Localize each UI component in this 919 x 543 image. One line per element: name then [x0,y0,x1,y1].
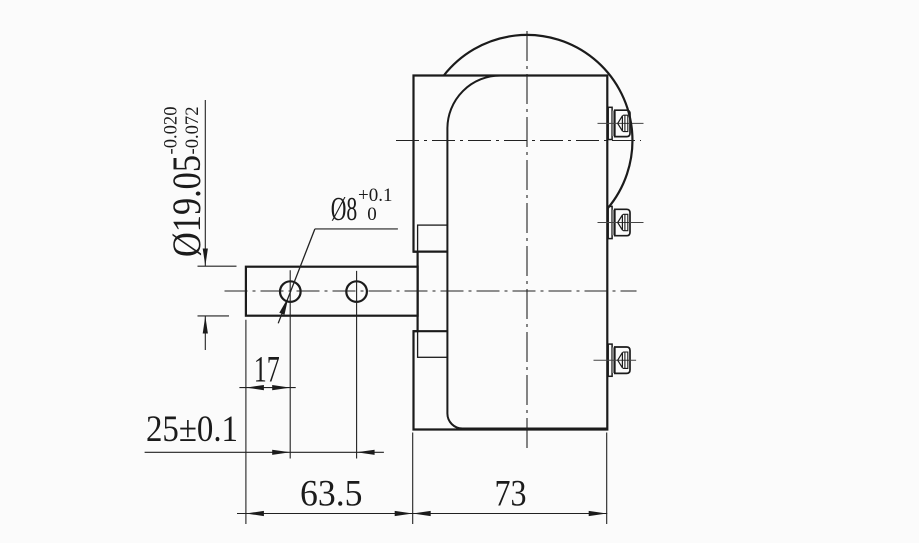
mounting tab lower [418,331,448,357]
centerline: vertical axis [526,31,528,449]
centerline: circle horizontal axis [396,140,641,142]
svg-text:73: 73 [495,474,527,515]
dimension 63.5: dimension line + arrows [237,513,607,515]
shaft arm [246,267,418,316]
notch line lower [413,330,447,332]
svg-text:63.5: 63.5 [300,474,363,515]
dimension D19.05: dimension line + arrows [204,100,206,266]
bolt B2 [598,206,644,238]
notch line upper [413,251,447,253]
dimension 63.5 / 73: extension lines [245,320,247,524]
centerline: main horizontal axis [225,290,637,292]
large flange circle arc [444,35,633,209]
inner housing rounded rect [447,76,607,429]
svg-text:0: 0 [367,204,377,225]
svg-text:17: 17 [254,350,280,391]
svg-text:+0.1: +0.1 [358,185,392,206]
bolt B3 [594,344,637,376]
svg-text:-0.072: -0.072 [182,107,203,155]
mounting tab upper [418,225,448,252]
svg-text:25±0.1: 25±0.1 [146,409,238,450]
centerline: hole 2 vertical / extension [356,271,358,459]
motor body outline [414,76,608,430]
dimension 73: arrows [413,511,431,516]
centerline: hole 1 vertical / extension [289,270,291,458]
dimension D8: leader [315,228,398,230]
svg-text:-0.020: -0.020 [161,107,182,155]
svg-text:Ø19.05: Ø19.05 [164,155,209,257]
hole 1 [280,281,301,302]
dimension 25±0.1: dimension line + arrows [145,451,384,453]
bolt B1 [598,107,644,139]
hole 2 [346,281,367,302]
dimension 17: dimension line + arrows [239,387,295,389]
svg-text:Ø8: Ø8 [331,191,358,228]
dimension D19.05: witness lines [198,265,237,267]
